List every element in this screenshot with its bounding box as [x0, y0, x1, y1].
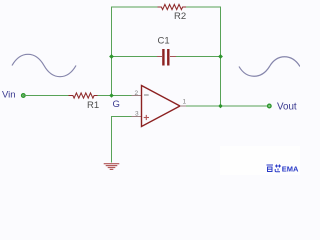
output sine wave [239, 57, 300, 77]
wire pin3 to ground corner [112, 117, 132, 163]
svg-text:R1: R1 [87, 100, 99, 111]
svg-text:R2: R2 [174, 11, 186, 22]
op-amp plus input mark [144, 115, 149, 120]
junction node G [109, 93, 114, 98]
wire top feedback from left vertical to R2 [112, 7, 158, 96]
watermark panel [220, 146, 300, 175]
op-amp U1 pin 2 lead [132, 95, 142, 97]
capacitor C1 [157, 35, 176, 65]
svg-text:1: 1 [183, 99, 187, 106]
svg-text:2: 2 [135, 90, 139, 97]
resistor R2 [158, 4, 187, 22]
junction C1 left [109, 54, 114, 59]
op-amp U1 pin 1 lead [180, 105, 186, 107]
op-amp U1 pin 3 lead [132, 116, 142, 118]
svg-text:C1: C1 [158, 35, 170, 46]
wire output to Vout [186, 105, 268, 107]
input sine wave [12, 54, 76, 76]
svg-text:Vin: Vin [2, 90, 16, 101]
wire R1 to node G [98, 95, 132, 97]
junction C1 right [218, 54, 223, 59]
logo 百芯EMA [267, 165, 282, 172]
svg-text:EMA: EMA [282, 164, 299, 173]
node Vin terminal [22, 94, 26, 98]
junction output node [218, 104, 223, 109]
wire C1 row left [112, 56, 158, 58]
wire Vin to R1 [23, 95, 69, 97]
resistor R1 [69, 93, 100, 111]
wire C1 row right [175, 56, 221, 58]
svg-text:3: 3 [135, 111, 139, 118]
svg-text:Vout: Vout [277, 102, 297, 113]
op-amp minus input mark [144, 94, 149, 96]
svg-text:G: G [113, 99, 120, 110]
node Vout terminal [268, 104, 272, 108]
op-amp U1 triangle [142, 86, 181, 127]
wire top feedback from R2 to right vertical [186, 7, 221, 106]
ground [104, 164, 120, 170]
